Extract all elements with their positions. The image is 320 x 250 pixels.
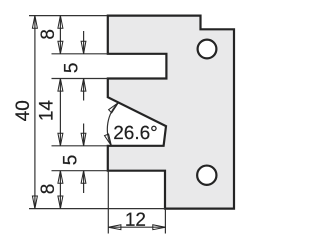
extension line lower band top <box>52 170 108 172</box>
dimension leader 5 bottom upper <box>83 124 85 146</box>
extension line width right <box>164 209 166 234</box>
dimension line 14 <box>59 79 61 146</box>
angle dimension arc <box>107 103 118 146</box>
extension line top edge <box>29 15 107 17</box>
dimension leader 5 top upper <box>83 31 85 54</box>
arrowhead 5 bottom lower <box>81 171 86 184</box>
dimension leader 5 top lower <box>83 79 85 101</box>
svg-text:8: 8 <box>38 29 59 40</box>
extension line notch bottom <box>52 145 108 147</box>
dimension line 40 <box>34 16 36 209</box>
arrowhead 5 top upper <box>81 41 86 54</box>
extension line slot bottom <box>52 78 108 80</box>
dimension line 8 bottom <box>59 171 61 209</box>
svg-text:8: 8 <box>38 184 59 195</box>
profile knife body <box>108 16 234 209</box>
extension line width left <box>107 171 109 234</box>
arrowhead 5 bottom upper <box>81 133 86 146</box>
svg-text:26.6°: 26.6° <box>113 123 158 144</box>
svg-text:40: 40 <box>13 100 34 121</box>
arrowhead 40 down <box>32 196 37 209</box>
svg-text:14: 14 <box>36 100 57 122</box>
arrowhead 14 up <box>58 79 63 92</box>
arrowhead 8 top down <box>58 41 63 54</box>
angle arrowhead upper <box>109 103 119 113</box>
arrowhead 12 right <box>153 225 166 230</box>
svg-text:5: 5 <box>61 155 82 166</box>
dimension line 8 top <box>59 16 61 54</box>
extension line bottom edge <box>29 208 165 210</box>
arrowhead 14 down <box>58 133 63 146</box>
arrowhead 8 bottom up <box>58 171 63 184</box>
arrowhead 5 top lower <box>81 79 86 92</box>
dimension leader 5 bottom lower <box>83 171 85 193</box>
arrowhead 40 up <box>32 16 37 29</box>
mounting hole bottom <box>197 166 216 185</box>
extension line slot top <box>52 53 108 55</box>
mounting hole top <box>198 40 217 59</box>
svg-text:12: 12 <box>125 210 146 231</box>
angle arrowhead lower <box>105 134 112 146</box>
dimension line 12 <box>108 226 165 228</box>
arrowhead 12 left <box>108 225 121 230</box>
arrowhead 8 top up <box>58 16 63 29</box>
arrowhead 8 bottom down <box>58 196 63 209</box>
svg-text:5: 5 <box>62 63 83 74</box>
